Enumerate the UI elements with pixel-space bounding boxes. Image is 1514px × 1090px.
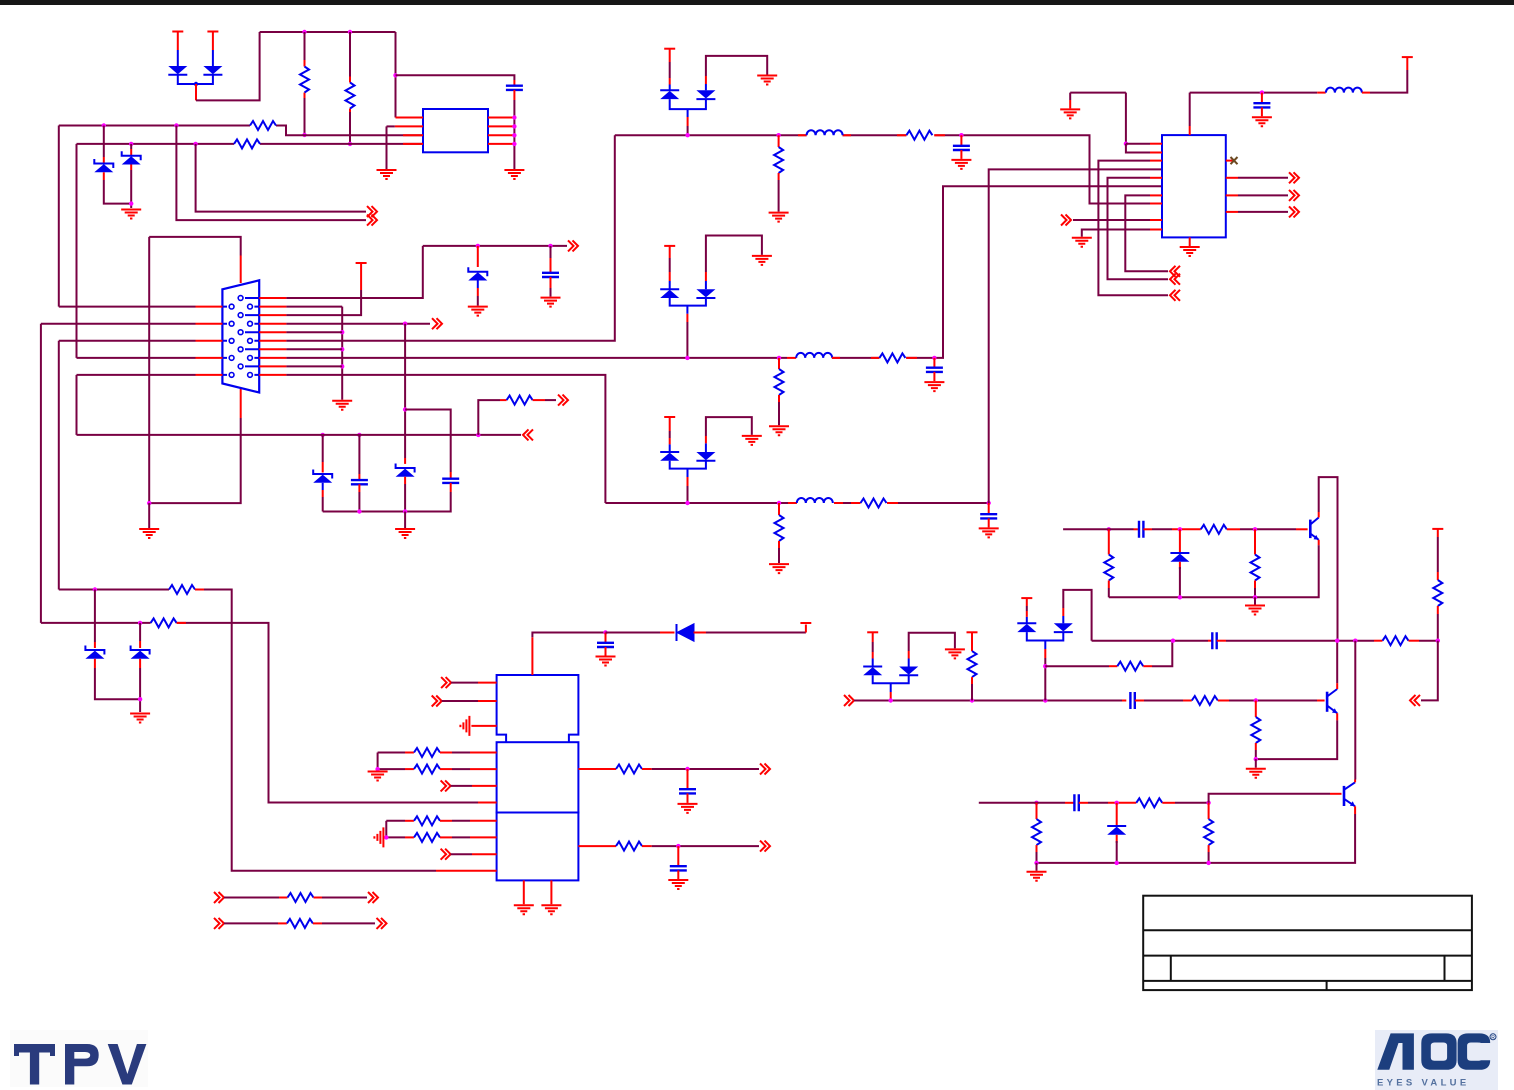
wire line2 to ground rail xyxy=(286,306,342,308)
wire D3 to node xyxy=(103,172,105,180)
chevron out xyxy=(377,918,387,929)
junction xyxy=(685,356,689,360)
junction xyxy=(776,133,780,137)
ground xyxy=(121,210,141,219)
svg-text:EYES VALUE: EYES VALUE xyxy=(1377,1078,1469,1089)
zener D24 xyxy=(313,470,332,483)
wire Q3 emitter xyxy=(1354,806,1356,814)
wire clamp3 rail xyxy=(670,461,706,469)
wire down to chevron-left xyxy=(1421,641,1438,701)
resistor R4 xyxy=(234,139,260,148)
wire line9 stub xyxy=(286,365,342,367)
ground sideways xyxy=(374,827,383,847)
resistor R6 xyxy=(774,147,783,173)
diode D19 clamp5 right xyxy=(899,667,918,676)
chevron out xyxy=(368,892,378,903)
ground xyxy=(514,905,534,914)
wire U2 pin7 to chevron-left riser xyxy=(1150,194,1162,196)
junction xyxy=(889,698,893,702)
wire R1 to busA xyxy=(304,98,306,135)
chevron in U3 pin k xyxy=(441,849,451,860)
resistor R19 xyxy=(616,842,642,851)
IC U3 bottom section box xyxy=(497,813,579,881)
wire line10 BLUE to row3 riser xyxy=(286,375,605,503)
chevron out xyxy=(760,841,770,852)
wire chevron to U3 xyxy=(442,700,478,702)
chevron in xyxy=(523,429,533,440)
wire CN pin5 to left riser xyxy=(59,340,196,342)
junction xyxy=(1178,595,1182,599)
diode D13 clamp1 right xyxy=(696,90,715,99)
wire to Q1 base red xyxy=(1296,528,1308,530)
wire U2 out2 to chevron xyxy=(1226,194,1238,196)
junction xyxy=(93,587,97,591)
wire row3 riser to U2 pin4 xyxy=(989,169,1162,503)
chevron in-right xyxy=(1061,215,1071,226)
supply stub emitter line xyxy=(1432,528,1443,530)
wire busA corner down to CN pin1 xyxy=(58,126,60,307)
wire U2 out3 to chevron xyxy=(1226,211,1238,213)
junction xyxy=(129,201,133,205)
ground xyxy=(752,256,772,265)
ground xyxy=(1072,238,1092,247)
ground xyxy=(668,880,688,889)
wire U3 pin g red lead xyxy=(478,802,497,804)
supply stub clamp4 xyxy=(1021,597,1032,599)
resistor R31 xyxy=(1136,798,1162,807)
capacitor C5 xyxy=(933,358,935,368)
capacitor C14 series xyxy=(1074,794,1078,811)
supply stub xyxy=(356,262,367,264)
zener D8 xyxy=(131,646,150,659)
wire chevron to U3 xyxy=(451,853,472,855)
resistor R5 xyxy=(507,396,533,405)
transistor Q1 xyxy=(1309,520,1312,539)
resistor R20 xyxy=(288,893,314,902)
resistor R2 xyxy=(346,83,355,109)
junction xyxy=(193,142,197,146)
ground xyxy=(924,382,944,391)
resistor R15 row xyxy=(378,768,405,770)
wire clamp2 rail xyxy=(670,298,706,306)
diode D12 clamp1 left xyxy=(669,85,671,91)
capacitor C2 xyxy=(542,273,559,277)
diode D14 clamp2 left xyxy=(669,281,671,289)
transistor Q2 xyxy=(1326,692,1329,712)
wire U2 out1 to chevron xyxy=(1226,177,1238,179)
capacitor C13 series xyxy=(1212,632,1216,649)
ground xyxy=(468,307,488,316)
wire shell stub bottom xyxy=(240,389,242,418)
capacitor C8 xyxy=(605,633,607,643)
wire branch up to R5 xyxy=(478,400,500,435)
wire VCC2 to D2 xyxy=(212,32,214,50)
wire to R21 xyxy=(224,922,278,924)
resistor R21 xyxy=(287,919,313,928)
wire line6 GREEN to filter riser xyxy=(286,135,614,341)
wire to zener D8 xyxy=(139,623,141,641)
transistor Q3 xyxy=(1343,786,1346,806)
resistor R22 pull-up xyxy=(968,651,977,677)
wire U2 pin5 to chevron-left riser xyxy=(1150,177,1162,179)
pin 3 red lead xyxy=(403,134,423,136)
wire clamp5 rail xyxy=(873,675,909,683)
junction xyxy=(685,133,689,137)
chevron out xyxy=(760,764,770,775)
wire U2 pin8 red lead xyxy=(1150,203,1162,205)
wire R2 to busB xyxy=(349,112,351,144)
wire branch to C3 xyxy=(405,410,451,473)
wire pin2 to ground xyxy=(386,126,388,169)
zener D5 xyxy=(468,267,487,280)
resistor R7 xyxy=(906,131,932,140)
connector pins mid column leads xyxy=(245,298,259,366)
connector CN1 D-sub body xyxy=(222,280,259,392)
junction xyxy=(1107,527,1111,531)
ground xyxy=(504,170,524,179)
wire clamp1 rail xyxy=(670,99,706,109)
AOC logo xyxy=(1375,1030,1498,1090)
junctions on right rail xyxy=(512,115,516,119)
junction xyxy=(685,501,689,505)
wire top bus xyxy=(260,31,396,33)
chevron out xyxy=(558,395,568,406)
wire Q3 collector red xyxy=(1354,780,1356,783)
ground xyxy=(769,564,789,573)
capacitor C4 xyxy=(960,135,962,146)
resistor R9 xyxy=(879,353,905,362)
svg-text:R: R xyxy=(1491,1035,1495,1041)
junction xyxy=(1124,142,1128,146)
wire to chevron HSYNC-upper xyxy=(196,144,366,212)
resistor R28 mid leg xyxy=(1254,529,1256,554)
diode D2 xyxy=(212,50,214,66)
connector pins right column leads xyxy=(254,307,259,375)
wire chevron to U3 xyxy=(451,682,478,684)
wire riser x40 down xyxy=(40,324,42,623)
resistor R18 xyxy=(616,765,642,774)
ground xyxy=(769,426,789,435)
zener D4 xyxy=(122,151,141,164)
wire busB corner down to CN pin7 xyxy=(76,144,78,358)
wire U3 out1 row xyxy=(578,768,616,770)
chevron in R20 row xyxy=(214,892,224,903)
wire node to bus xyxy=(195,84,197,100)
ground sideways U3 pin c xyxy=(460,716,469,736)
ground xyxy=(1245,606,1265,615)
wire Q1 collector riser xyxy=(1318,512,1320,518)
resistor R14 row xyxy=(378,752,405,754)
supply stub clamp3 xyxy=(664,416,675,418)
supply stub xyxy=(1402,56,1413,58)
junction xyxy=(348,30,352,34)
connector pin circles xyxy=(229,296,252,378)
border frame top bar xyxy=(0,0,1514,5)
junction xyxy=(1034,861,1038,865)
connector CN1 shell ring top xyxy=(149,237,241,256)
junction xyxy=(138,621,142,625)
pin 2 xyxy=(395,125,423,127)
chevron in xyxy=(1170,274,1180,285)
ground xyxy=(769,213,789,222)
junction xyxy=(302,133,306,137)
junction xyxy=(603,630,607,634)
junction xyxy=(548,244,552,248)
wire line1 up to RC row xyxy=(286,246,422,298)
junction xyxy=(348,142,352,146)
ground xyxy=(1180,247,1200,256)
junction shell ground xyxy=(147,501,151,505)
wire Q2 emitter xyxy=(1336,713,1338,720)
wire left lower line1 xyxy=(59,590,436,871)
resistor R17 row xyxy=(386,836,405,838)
chevron out xyxy=(568,240,578,251)
wire line4 to chevron xyxy=(286,323,430,325)
wire to capacitor C15 xyxy=(358,435,360,474)
inductor L1 xyxy=(798,134,945,136)
capacitor C9 xyxy=(687,769,689,789)
ground xyxy=(541,298,561,307)
junction xyxy=(1043,698,1047,702)
wire to capacitor C2 xyxy=(550,246,552,258)
resistor R8 xyxy=(775,369,784,395)
op-amp U1 box xyxy=(423,109,488,152)
diode D21 clamp4 right xyxy=(1054,623,1073,632)
junction xyxy=(970,698,974,702)
diode D1 xyxy=(177,50,179,66)
resistor R25 base-emitter xyxy=(1255,701,1257,718)
junction xyxy=(340,330,344,334)
diode D16 clamp3 left xyxy=(669,444,671,452)
ground xyxy=(130,714,150,723)
capacitor C7 xyxy=(1261,93,1263,104)
ground xyxy=(368,772,388,781)
ground xyxy=(757,76,777,85)
wire U2 pin3 to chevron-left riser xyxy=(1150,160,1162,162)
wire row3 shunt R xyxy=(778,503,780,515)
wire C1 down xyxy=(513,90,515,100)
wire U2 bottom pin to ground xyxy=(1189,237,1191,246)
wire R14 corner to node xyxy=(377,753,379,770)
capacitor C12 series xyxy=(1139,521,1143,538)
wire CN pin9 to left riser xyxy=(77,374,196,376)
junction xyxy=(1115,861,1119,865)
ground xyxy=(678,804,698,813)
junction xyxy=(321,433,325,437)
wire L4 to supply xyxy=(1370,70,1407,93)
IC U3 top section box xyxy=(497,675,579,742)
capacitor C3 xyxy=(442,479,459,483)
wire U2 pin10 to ground xyxy=(1150,229,1162,231)
wire U3 top pin to supply rail xyxy=(531,637,533,675)
junction xyxy=(174,123,178,127)
resistor R10 xyxy=(775,515,784,541)
wire to zener D3 xyxy=(103,126,105,158)
wire bus to R2 xyxy=(349,32,351,77)
junction xyxy=(1178,527,1182,531)
junction xyxy=(476,244,480,248)
IC U3 mid section box xyxy=(497,742,579,812)
chevron in xyxy=(1170,290,1180,301)
wire R16 corner to node xyxy=(385,821,387,838)
wire RC row xyxy=(423,245,567,247)
wire clamp4 rail xyxy=(1027,632,1064,640)
wire line8 RED row2 xyxy=(286,357,787,359)
junction xyxy=(1206,861,1210,865)
resistor R11 xyxy=(861,499,887,508)
junction xyxy=(129,142,133,146)
ground xyxy=(1246,769,1266,778)
wire left lower line2 xyxy=(41,623,478,803)
wire U3 bottom stubs to grounds xyxy=(524,880,552,904)
wire clamp4 node to R23 xyxy=(1045,665,1109,667)
chevron out xyxy=(1289,172,1299,183)
junction xyxy=(102,123,106,127)
diode D9 xyxy=(677,624,694,641)
chevron out xyxy=(432,318,442,329)
wire row2 shunt R xyxy=(778,358,780,369)
ground xyxy=(951,160,971,169)
wire to zener D5 xyxy=(477,246,479,267)
zener D3 xyxy=(94,159,113,172)
wire clamp1 right to ground xyxy=(706,56,767,76)
junction xyxy=(777,356,781,360)
resistor R32 left leg xyxy=(1036,803,1038,819)
chevron out xyxy=(367,215,377,226)
junction xyxy=(1206,801,1210,805)
junction xyxy=(476,433,480,437)
wire line3 to supply xyxy=(286,290,361,315)
wire rail to pin1/pin2 riser xyxy=(1125,93,1127,144)
chevron in U3 pin f xyxy=(441,780,451,791)
wire to R20 xyxy=(224,897,279,899)
wire VS3 line start xyxy=(979,802,1028,804)
junction xyxy=(959,133,963,137)
diode D15 clamp2 right xyxy=(696,289,715,298)
wire clamp3 right to ground xyxy=(706,417,752,436)
junction xyxy=(1253,527,1257,531)
wire VS line start xyxy=(1063,528,1100,530)
ground xyxy=(395,529,415,538)
wire CN pin3 to left riser xyxy=(41,323,196,325)
zener D6 xyxy=(404,458,406,464)
ground xyxy=(1027,872,1047,881)
junction xyxy=(676,844,680,848)
wire line5 stub xyxy=(286,331,342,333)
wire Q2 collector xyxy=(1336,683,1338,689)
wire U2 pin2 xyxy=(1126,144,1150,153)
title block frame xyxy=(1143,896,1472,990)
wire filter row1 bus xyxy=(615,135,1162,203)
ground xyxy=(377,170,397,179)
wire to C1 xyxy=(396,75,515,80)
diode D18 clamp5 left xyxy=(872,659,874,667)
resistor R13 xyxy=(151,618,177,627)
wire row1 shunt R xyxy=(778,135,780,147)
zener D7 xyxy=(85,646,104,659)
wire to zener D4 xyxy=(130,144,132,149)
junction xyxy=(1171,639,1175,643)
wire D4 to ground node xyxy=(130,165,132,171)
inductor L2 xyxy=(787,357,796,359)
junction xyxy=(987,501,991,505)
inductor L3 xyxy=(788,502,898,504)
ground xyxy=(742,436,762,445)
junction xyxy=(685,767,689,771)
junction xyxy=(1353,639,1357,643)
chevron in xyxy=(1410,695,1420,706)
ground xyxy=(1060,109,1080,118)
supply stub pull-up xyxy=(967,631,978,633)
resistor R30 xyxy=(1383,636,1409,645)
junction xyxy=(1115,801,1119,805)
chevron in U3 pin b xyxy=(432,696,442,707)
ground xyxy=(139,529,159,538)
chevron in xyxy=(1170,266,1180,277)
wire clamp5 right to ground xyxy=(909,633,955,651)
junction xyxy=(357,509,361,513)
connector pins left column leads xyxy=(222,307,227,375)
inductor L4 xyxy=(1317,92,1326,94)
junction xyxy=(1436,639,1440,643)
ground xyxy=(332,401,352,410)
resistor R12 xyxy=(169,585,195,594)
IC U2 box xyxy=(1162,135,1226,237)
wire top rail left segment xyxy=(1070,93,1126,100)
junction xyxy=(375,767,379,771)
junction xyxy=(393,73,397,77)
ground xyxy=(979,528,999,537)
supply stub clamp5 xyxy=(867,631,878,633)
wire line4 branch down xyxy=(404,324,406,458)
connector right red leads xyxy=(259,298,286,375)
resistor R26 xyxy=(1201,525,1227,534)
junction xyxy=(1260,90,1264,94)
wire HS line xyxy=(854,700,1122,702)
junction xyxy=(340,364,344,368)
wire to Q2 base red xyxy=(1317,700,1325,702)
ground xyxy=(945,649,965,658)
supply stub clamp1 xyxy=(664,48,675,50)
resistor R23 xyxy=(1117,662,1143,671)
wire to zener D7 xyxy=(94,590,96,643)
AOC registered mark xyxy=(1490,1034,1496,1040)
resistor R27 left leg xyxy=(1108,529,1110,554)
wire bus to R1 xyxy=(304,32,306,60)
wire mid rail y640 xyxy=(1092,640,1208,642)
junction xyxy=(1254,757,1258,761)
wire SDA row to chevron-left xyxy=(77,434,522,436)
ground xyxy=(596,657,616,666)
wire row3 bus xyxy=(605,502,988,504)
pin 4 red lead xyxy=(403,143,423,145)
chevron in HS line xyxy=(844,695,854,706)
capacitor C15 xyxy=(351,480,368,484)
ground xyxy=(1252,117,1272,126)
TPV logo xyxy=(10,1030,148,1087)
no-connect X pin xyxy=(1226,160,1233,162)
junction xyxy=(1253,595,1257,599)
capacitor C6 xyxy=(988,503,990,514)
wire row2 continue xyxy=(832,186,1162,358)
junction xyxy=(1254,698,1258,702)
capacitor C10 xyxy=(677,846,679,866)
diode D22 xyxy=(1179,529,1181,553)
junction xyxy=(403,322,407,326)
wire HS to cap C11 xyxy=(1122,700,1126,702)
junction xyxy=(357,433,361,437)
supply stub VCC2 xyxy=(207,31,218,33)
